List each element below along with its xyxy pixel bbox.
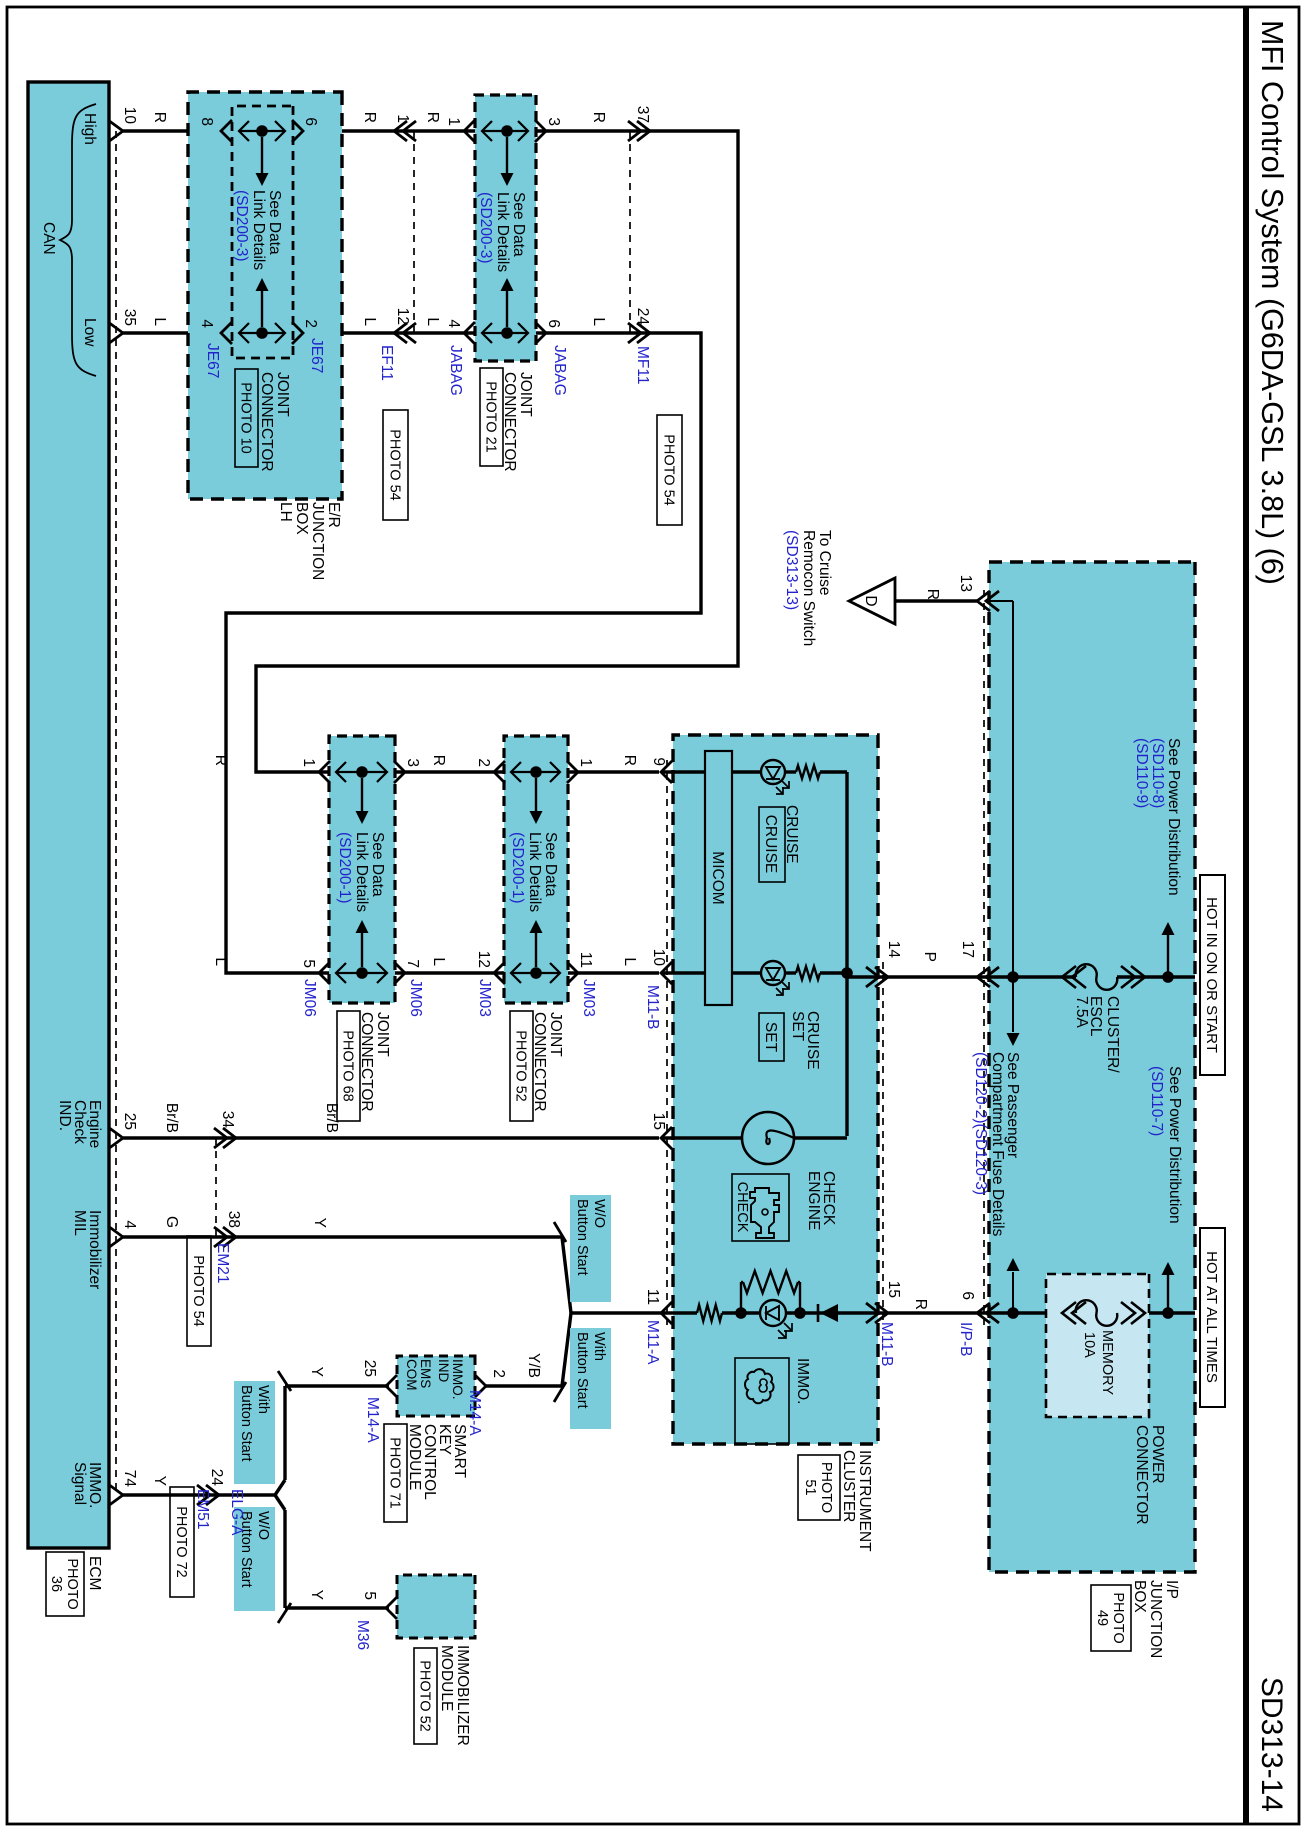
svg-text:15: 15 — [650, 1113, 667, 1130]
JM06 pin 5 — [319, 962, 330, 984]
ECM pin 35 — [108, 322, 123, 344]
node immo led lower — [735, 1307, 747, 1319]
W/O Button Start highlight 1 — [570, 1195, 611, 1302]
svg-text:EMS: EMS — [418, 1359, 433, 1388]
svg-text:CONNECTOR: CONNECTOR — [258, 372, 275, 472]
svg-text:11: 11 — [577, 952, 594, 968]
SET boxed label — [759, 1013, 784, 1061]
node feed junction — [1007, 971, 1019, 983]
svg-text:PHOTO 72: PHOTO 72 — [173, 1506, 189, 1577]
svg-text:M36: M36 — [354, 1620, 371, 1650]
svg-text:COM: COM — [404, 1359, 419, 1391]
connector 24 L-wire — [637, 323, 650, 343]
svg-text:12: 12 — [394, 308, 411, 325]
svg-text:M14-A: M14-A — [364, 1397, 381, 1443]
JE67 R-wire internal link — [239, 130, 285, 132]
svg-text:JOINT: JOINT — [547, 1012, 564, 1057]
tick With lower — [278, 1371, 291, 1391]
HOT AT ALL TIMES box — [1200, 1228, 1225, 1407]
IMMO boxed label with key icon — [735, 1358, 789, 1444]
svg-text:R: R — [590, 112, 607, 123]
svg-text:ECM: ECM — [86, 1556, 103, 1590]
cluster lamp bus wire — [845, 772, 848, 1136]
svg-text:49: 49 — [1094, 1610, 1110, 1626]
svg-text:JM03: JM03 — [476, 979, 493, 1017]
svg-text:ENGINE: ENGINE — [805, 1171, 822, 1230]
svg-text:Y: Y — [308, 1367, 325, 1377]
svg-text:(SD110-7): (SD110-7) — [1148, 1066, 1165, 1136]
svg-text:R: R — [924, 589, 941, 600]
smart key pin 25 — [386, 1375, 397, 1397]
svg-text:MEMORY: MEMORY — [1099, 1330, 1115, 1395]
JM06 pin 3 — [394, 761, 405, 783]
JM06 pin 7 — [394, 962, 405, 984]
JM06 pin 1 — [319, 761, 330, 783]
wire immo branch lower — [661, 1311, 697, 1314]
cluster pin 9 — [661, 761, 672, 783]
svg-text:35: 35 — [121, 309, 138, 326]
svg-text:L: L — [212, 957, 229, 966]
fuse CLUSTER/ESCL 7.5A — [1076, 964, 1118, 990]
wire Immobilizer MIL run — [123, 1235, 562, 1238]
svg-text:Link Details: Link Details — [250, 190, 267, 270]
svg-text:PHOTO 54: PHOTO 54 — [387, 429, 403, 500]
svg-text:See Power Distribution: See Power Distribution — [1165, 738, 1182, 896]
svg-text:JUNCTION: JUNCTION — [1147, 1580, 1164, 1658]
svg-text:W/O: W/O — [591, 1199, 607, 1228]
tick W/O branch — [554, 1222, 566, 1242]
immo branch resistor — [697, 1305, 722, 1321]
svg-text:24: 24 — [634, 308, 651, 326]
svg-text:IMMO.: IMMO. — [450, 1359, 465, 1400]
svg-text:25: 25 — [361, 1360, 378, 1377]
svg-text:1: 1 — [577, 758, 594, 767]
svg-text:R: R — [430, 755, 447, 766]
svg-text:LH: LH — [277, 502, 294, 522]
svg-text:I/P-B: I/P-B — [957, 1322, 974, 1356]
cruise branch resistor — [796, 766, 820, 779]
I/P pin dashed line — [983, 590, 985, 1325]
svg-text:11: 11 — [644, 1289, 661, 1305]
node hot at all times junction — [1162, 1307, 1174, 1319]
svg-text:JOINT: JOINT — [517, 372, 534, 417]
connector EF11 R-wire pin 1 — [394, 121, 407, 141]
svg-text:10: 10 — [121, 107, 138, 125]
svg-text:MIL: MIL — [71, 1210, 88, 1236]
svg-text:Y/B: Y/B — [525, 1353, 542, 1378]
svg-text:1: 1 — [445, 117, 462, 126]
svg-text:(SD200-3): (SD200-3) — [477, 192, 494, 264]
svg-text:R: R — [212, 755, 229, 766]
fuse chevron below cluster fuse — [1062, 966, 1076, 988]
svg-text:8: 8 — [198, 117, 215, 126]
svg-text:24: 24 — [208, 1469, 225, 1487]
joint connector JE67 box — [232, 106, 293, 358]
cruise indicator lamp — [761, 760, 785, 784]
svg-text:R: R — [621, 755, 638, 766]
svg-text:R: R — [151, 112, 168, 123]
E/R junction box outer — [188, 92, 342, 499]
svg-text:L: L — [590, 317, 607, 326]
smart key photo box — [384, 1424, 407, 1522]
connector 34 — [223, 1128, 236, 1148]
svg-text:12: 12 — [475, 951, 492, 968]
svg-text:Low: Low — [81, 318, 98, 347]
svg-text:See Data: See Data — [510, 192, 527, 257]
svg-text:JM06: JM06 — [407, 979, 424, 1017]
svg-text:E/R: E/R — [325, 502, 342, 528]
ECM pin dashed line — [115, 131, 117, 1495]
wire CAN Low L run — [123, 333, 701, 973]
svg-text:3: 3 — [545, 117, 562, 126]
svg-text:10A: 10A — [1081, 1332, 1097, 1358]
I/P pin 13 — [977, 591, 990, 611]
svg-text:L: L — [430, 957, 447, 966]
see passenger arrow right — [1012, 977, 1014, 1032]
wire immo branch upper — [786, 1311, 838, 1314]
svg-text:4: 4 — [121, 1220, 138, 1229]
JE67 see data link arrow right — [261, 137, 263, 175]
svg-text:51: 51 — [802, 1479, 818, 1495]
svg-text:Button Start: Button Start — [574, 1332, 590, 1409]
JABAG see data link arrow left — [506, 289, 508, 327]
JM03 see data link arrow left — [535, 931, 537, 967]
wire CAN High R run — [123, 131, 738, 772]
HOT IN ON OR START box — [1200, 875, 1225, 1075]
JABAG R-wire internal link — [482, 130, 528, 132]
see passenger arrow left — [1012, 1272, 1014, 1313]
JE67 pin 4 — [221, 322, 232, 344]
svg-text:IMMO.: IMMO. — [794, 1358, 811, 1405]
svg-text:6: 6 — [302, 117, 319, 126]
svg-text:D: D — [862, 595, 879, 606]
svg-text:CLUSTER/: CLUSTER/ — [1104, 996, 1121, 1073]
svg-text:25: 25 — [121, 1113, 138, 1130]
svg-text:7.5A: 7.5A — [1073, 996, 1090, 1029]
svg-text:JABAG: JABAG — [551, 345, 568, 396]
wire to cruise remocon — [895, 599, 978, 602]
svg-text:M11-B: M11-B — [878, 1322, 895, 1367]
svg-text:CHECK: CHECK — [734, 1182, 750, 1233]
svg-text:Compartment Fuse Details: Compartment Fuse Details — [989, 1052, 1006, 1237]
svg-text:PHOTO 71: PHOTO 71 — [387, 1437, 403, 1508]
svg-text:PHOTO 54: PHOTO 54 — [661, 434, 677, 505]
svg-text:HOT IN ON OR START: HOT IN ON OR START — [1203, 897, 1220, 1053]
svg-text:14: 14 — [885, 941, 902, 959]
svg-text:PHOTO 52: PHOTO 52 — [417, 1660, 433, 1731]
wire feed A cluster — [847, 975, 889, 978]
svg-text:HOT AT ALL TIMES: HOT AT ALL TIMES — [1203, 1251, 1220, 1383]
svg-text:(SD200-3): (SD200-3) — [233, 190, 250, 262]
connector 34-38 dashed link — [215, 1138, 217, 1237]
smart key pin 2 — [475, 1375, 486, 1397]
svg-text:2: 2 — [490, 1369, 507, 1378]
wire set branch — [661, 971, 705, 974]
set branch resistor — [796, 967, 820, 980]
JM03 pin 11 — [567, 962, 578, 984]
cluster photo box — [798, 1455, 840, 1520]
svg-text:MICOM: MICOM — [709, 851, 726, 904]
svg-text:SET: SET — [789, 1011, 806, 1042]
fork diagonal to With branch — [283, 1386, 286, 1480]
svg-text:JUNCTION: JUNCTION — [309, 502, 326, 580]
wire Engine Check IND run — [123, 1136, 659, 1139]
joint connector JM03 box — [504, 736, 568, 1003]
I/P pin 17 — [977, 967, 990, 987]
immobilizer module box — [397, 1575, 475, 1638]
cluster pin dashed line top — [882, 962, 884, 1325]
svg-text:ELG-A: ELG-A — [228, 1489, 245, 1536]
svg-text:15: 15 — [885, 1281, 902, 1298]
immo parallel resistor loop — [740, 1282, 742, 1313]
JM06 L-wire internal link — [336, 972, 387, 974]
svg-text:Signal: Signal — [71, 1462, 88, 1505]
hot in on or start arrow — [1167, 933, 1169, 977]
connector 37 R-wire — [637, 121, 650, 141]
wire With branch to smart key — [285, 1384, 389, 1387]
ECM pin 4 — [108, 1226, 123, 1248]
svg-text:PHOTO: PHOTO — [818, 1462, 834, 1513]
wire IMMO Signal run — [123, 1493, 275, 1496]
immo diode — [820, 1304, 838, 1322]
fuse chevron above memory fuse — [1131, 1302, 1145, 1324]
svg-text:PHOTO: PHOTO — [1110, 1592, 1126, 1643]
svg-text:Y: Y — [311, 1218, 328, 1228]
JABAG pin 6 — [535, 322, 546, 344]
wire pin 11 merge — [571, 1311, 661, 1314]
JABAG see data link arrow right — [506, 137, 508, 175]
ECM pin 25 — [108, 1127, 123, 1149]
svg-text:PHOTO: PHOTO — [64, 1558, 80, 1609]
svg-text:Link Details: Link Details — [526, 832, 543, 912]
EM21 photo box — [187, 1236, 211, 1346]
svg-text:R: R — [361, 112, 378, 123]
immobilizer photo box — [414, 1648, 437, 1744]
MEMORY fuse box — [1046, 1274, 1149, 1417]
svg-text:JABAG: JABAG — [447, 345, 464, 396]
MF11 photo box — [657, 415, 682, 525]
svg-text:See Data: See Data — [542, 832, 559, 897]
svg-text:IND: IND — [436, 1359, 451, 1383]
svg-text:17: 17 — [959, 941, 976, 958]
svg-text:R: R — [424, 112, 441, 123]
svg-text:Link Details: Link Details — [353, 832, 370, 912]
svg-text:(SD120-2)(SD120-3): (SD120-2)(SD120-3) — [972, 1052, 989, 1195]
cluster pin 10 — [661, 962, 672, 984]
JABAG pin 4 — [464, 322, 475, 344]
svg-text:(SD110-8): (SD110-8) — [1149, 738, 1166, 808]
cluster pin 11 — [661, 1302, 672, 1324]
tick With branch — [554, 1382, 566, 1402]
svg-text:36: 36 — [48, 1576, 64, 1592]
svg-text:To Cruise: To Cruise — [816, 530, 833, 595]
svg-text:(SD313-13): (SD313-13) — [783, 530, 800, 610]
svg-text:JOINT: JOINT — [274, 372, 291, 417]
svg-text:See Power Distribution: See Power Distribution — [1166, 1066, 1183, 1224]
JM06 see data link arrow left — [361, 931, 363, 967]
svg-text:4: 4 — [198, 319, 215, 328]
svg-text:CLUSTER: CLUSTER — [840, 1450, 857, 1522]
instrument cluster box — [673, 735, 878, 1444]
wire check engine branch — [661, 1136, 742, 1139]
EM51 photo box — [170, 1487, 194, 1597]
svg-text:High: High — [81, 113, 98, 145]
svg-text:EF11: EF11 — [378, 345, 395, 381]
svg-text:See Data: See Data — [266, 190, 283, 255]
svg-text:IMMOBILIZER: IMMOBILIZER — [454, 1645, 471, 1746]
svg-text:JE67: JE67 — [204, 343, 221, 378]
svg-text:10: 10 — [650, 949, 667, 967]
svg-text:G: G — [163, 1216, 180, 1228]
immo indicator led — [760, 1300, 786, 1326]
svg-text:1: 1 — [394, 114, 411, 123]
I/P pin 6 — [977, 1303, 990, 1323]
svg-text:I/P: I/P — [1163, 1580, 1180, 1599]
wire immo branch mid — [722, 1311, 760, 1314]
JE67 see data link arrow left — [261, 289, 263, 327]
JM03 L-wire internal link — [511, 972, 560, 974]
svg-text:CRUISE: CRUISE — [762, 815, 779, 874]
svg-text:PHOTO 10: PHOTO 10 — [238, 382, 254, 453]
header divider line — [1243, 7, 1249, 1824]
svg-text:Y: Y — [308, 1590, 325, 1600]
svg-text:PHOTO 52: PHOTO 52 — [513, 1030, 529, 1101]
svg-text:5: 5 — [361, 1591, 378, 1600]
cluster exit pin 14 — [875, 967, 888, 987]
wire feed B horizontal — [988, 600, 1013, 602]
wire cruise branch — [661, 770, 705, 773]
svg-text:P: P — [921, 952, 938, 962]
merge diagonal left — [562, 1237, 571, 1313]
node set junction — [841, 967, 853, 979]
svg-text:13: 13 — [957, 575, 974, 592]
svg-text:74: 74 — [121, 1470, 138, 1488]
svg-text:34: 34 — [219, 1111, 236, 1129]
MICOM box — [705, 751, 732, 1005]
fuse MEMORY 10A — [1076, 1300, 1118, 1326]
ECM CAN bracket — [60, 104, 96, 376]
svg-text:CAN: CAN — [40, 222, 57, 255]
svg-text:EM21: EM21 — [214, 1243, 231, 1284]
svg-text:38: 38 — [225, 1211, 242, 1228]
svg-text:M11-A: M11-A — [644, 1320, 661, 1365]
svg-text:With: With — [255, 1385, 271, 1414]
svg-text:Button Start: Button Start — [238, 1385, 254, 1462]
svg-text:5: 5 — [300, 959, 317, 968]
svg-text:1: 1 — [300, 758, 317, 767]
EF11 photo box — [383, 410, 408, 520]
svg-text:JOINT: JOINT — [374, 1012, 391, 1057]
merge diagonal right — [562, 1313, 571, 1386]
JABAG photo box — [480, 368, 503, 466]
JM06 see data link arrow right — [361, 778, 363, 813]
JM06 photo box — [337, 1011, 360, 1121]
W/O Button Start highlight 2 — [234, 1507, 275, 1611]
smart key control module box — [397, 1356, 475, 1416]
wire With branch down — [486, 1384, 562, 1387]
svg-text:PHOTO 21: PHOTO 21 — [483, 381, 499, 452]
svg-text:JM03: JM03 — [580, 979, 597, 1017]
svg-text:JE67: JE67 — [308, 338, 325, 373]
ECM box — [28, 82, 109, 1548]
svg-text:6: 6 — [545, 319, 562, 328]
JM03 see data link arrow right — [535, 778, 537, 813]
CRUISE boxed label — [759, 807, 785, 882]
svg-text:(SD200-1): (SD200-1) — [509, 832, 526, 904]
wire immo feed — [885, 1311, 1076, 1314]
svg-text:R: R — [912, 1299, 929, 1310]
svg-text:With: With — [591, 1332, 607, 1361]
svg-text:M11-B: M11-B — [644, 985, 661, 1030]
svg-text:BOX: BOX — [1131, 1580, 1148, 1613]
svg-text:2: 2 — [302, 319, 319, 328]
svg-text:6: 6 — [959, 1291, 976, 1300]
svg-text:Remocon Switch: Remocon Switch — [800, 530, 817, 646]
svg-text:(SD110-9): (SD110-9) — [1133, 738, 1150, 808]
cluster pin 15 — [661, 1127, 672, 1149]
svg-text:PHOTO 68: PHOTO 68 — [340, 1030, 356, 1101]
connector 38 — [223, 1227, 236, 1247]
svg-text:L: L — [151, 317, 168, 326]
wire immo to exit pin — [838, 1311, 885, 1314]
ECM pin 10 — [108, 120, 123, 142]
svg-text:MFI Control System (G6DA-GSL 3: MFI Control System (G6DA-GSL 3.8L) (6) — [1255, 20, 1289, 585]
svg-text:L: L — [424, 317, 441, 326]
svg-text:JM06: JM06 — [301, 979, 318, 1017]
svg-text:7: 7 — [404, 959, 421, 968]
joint connector JABAG box — [475, 95, 536, 361]
I/P junction box — [989, 562, 1195, 1572]
JE67 pin 8 — [221, 120, 232, 142]
node sd120 junction — [1007, 1307, 1019, 1319]
svg-text:9: 9 — [650, 757, 667, 766]
svg-text:POWER: POWER — [1149, 1425, 1166, 1484]
cluster pin dashed line bottom — [666, 760, 668, 1325]
svg-text:MODULE: MODULE — [406, 1424, 423, 1490]
remocon triangle D — [849, 578, 895, 624]
svg-text:MODULE: MODULE — [438, 1645, 455, 1711]
svg-text:Button Start: Button Start — [574, 1199, 590, 1276]
svg-text:L: L — [361, 317, 378, 326]
svg-text:Link Details: Link Details — [494, 192, 511, 272]
connector MF11 dashed link — [629, 131, 631, 333]
JE67 pin 6 — [292, 120, 303, 142]
svg-text:Y: Y — [151, 1476, 168, 1486]
JE67 L-wire internal link — [239, 332, 285, 334]
immobilizer pin 5 — [386, 1597, 397, 1619]
fuse chevron below memory fuse — [1062, 1302, 1076, 1324]
svg-text:INSTRUMENT: INSTRUMENT — [856, 1450, 873, 1552]
fuse chevron above cluster fuse — [1131, 966, 1145, 988]
svg-text:PHOTO 54: PHOTO 54 — [190, 1255, 206, 1326]
svg-text:BOX: BOX — [293, 502, 310, 535]
set indicator lamp — [761, 961, 785, 985]
With Button Start highlight 2 — [234, 1381, 275, 1484]
JE67 photo box — [235, 369, 258, 467]
tick W/O lower — [278, 1603, 291, 1623]
svg-text:37: 37 — [634, 106, 651, 123]
JABAG L-wire internal link — [482, 332, 528, 334]
JM03 pin 1 — [567, 761, 578, 783]
ECM photo box — [46, 1552, 84, 1616]
ECM pin 74 — [108, 1484, 123, 1506]
JE67 pin 2 — [292, 322, 303, 344]
wire W/O branch to immobilizer module — [285, 1606, 389, 1609]
svg-text:4: 4 — [445, 319, 462, 328]
svg-text:MF11: MF11 — [634, 346, 651, 384]
connector 24 EM51 — [206, 1485, 219, 1505]
JM03 pin 2 — [494, 761, 505, 783]
